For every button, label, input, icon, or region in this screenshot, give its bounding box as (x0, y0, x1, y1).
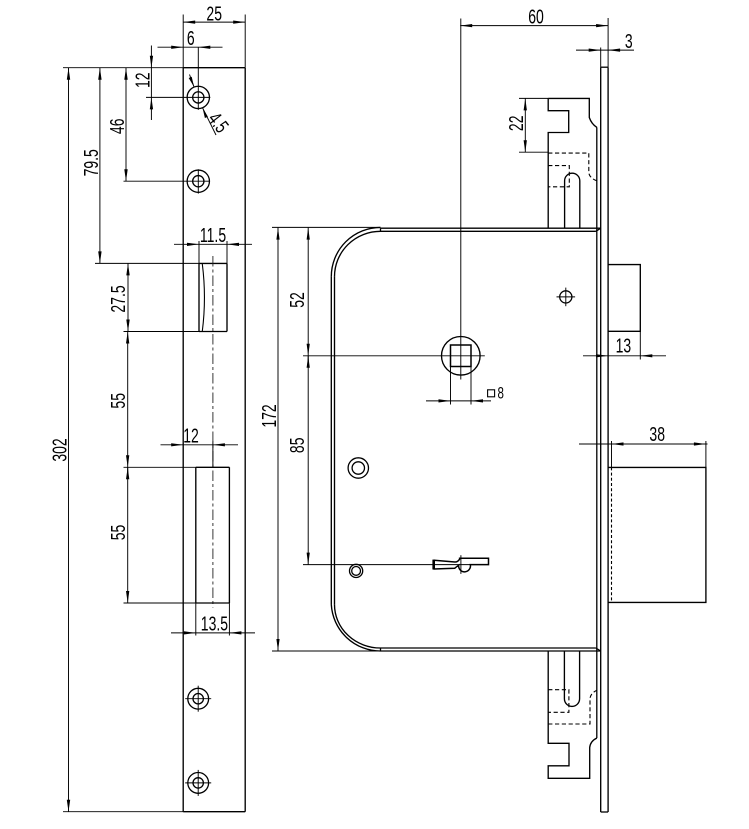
dim 302 (48, 68, 71, 812)
case screw hole (557, 288, 576, 307)
case top-left corner arcs (331, 227, 380, 276)
dim 172 (257, 228, 280, 651)
top hook piece (548, 98, 597, 228)
spindle follower hub (303, 19, 485, 405)
dim 11.5 (174, 223, 252, 263)
svg-text:13.5: 13.5 (201, 612, 228, 635)
latch cutout (95, 263, 227, 331)
svg-text:55: 55 (107, 525, 130, 541)
svg-text:79.5: 79.5 (79, 149, 102, 176)
case left edge (331, 277, 334, 605)
dim 12 deadbolt (161, 424, 239, 468)
svg-text:22: 22 (505, 116, 528, 132)
deadbolt throw box (608, 467, 706, 602)
svg-text:172: 172 (257, 404, 280, 427)
key bit symbol (434, 558, 489, 572)
svg-text:27.5: 27.5 (107, 285, 130, 312)
dim 46 (105, 68, 128, 182)
screw hole F1 top (146, 47, 210, 110)
bottom slot with pin (564, 651, 579, 706)
deadbolt cutout (124, 467, 230, 635)
dim 55 lower (107, 467, 130, 603)
svg-text:12: 12 (131, 72, 154, 88)
case right edge (596, 127, 598, 738)
dim 55 upper (107, 332, 130, 468)
faceplate front view outline (183, 68, 245, 812)
latch bolt head (608, 265, 640, 360)
dim 22 (505, 98, 549, 152)
dim 3 (576, 29, 634, 67)
bottom hook piece (548, 651, 597, 778)
dim 12 vertical (131, 46, 154, 121)
case top edge (272, 227, 601, 231)
svg-text:60: 60 (528, 5, 544, 28)
dim 13.5 (171, 612, 255, 635)
svg-text:55: 55 (107, 393, 130, 409)
faceplate top/bottom extension lines (63, 68, 183, 812)
svg-text:8: 8 (498, 384, 504, 403)
svg-text:25: 25 (206, 2, 222, 25)
dim 52 (285, 228, 309, 356)
dim square 8 (426, 384, 504, 403)
top hidden lines (548, 153, 597, 187)
svg-text:52: 52 (285, 292, 308, 308)
bottom hidden lines (548, 690, 597, 724)
svg-text:85: 85 (285, 438, 308, 454)
dim 38 (579, 422, 708, 467)
svg-text:6: 6 (187, 26, 195, 49)
dim 27.5 (107, 263, 130, 331)
svg-text:46: 46 (105, 119, 128, 135)
svg-text:3: 3 (625, 29, 633, 52)
dim 25 (183, 2, 245, 68)
svg-text:11.5: 11.5 (200, 223, 226, 246)
case bottom edge (272, 648, 601, 651)
dim 13 (583, 334, 666, 358)
cylinder hole upper (348, 458, 368, 478)
latch bolt curve (202, 264, 204, 331)
dim 79.5 (79, 68, 102, 264)
screw hole F2 (124, 169, 210, 193)
case bottom-left corner arcs (331, 605, 380, 651)
svg-text:302: 302 (48, 438, 71, 461)
screw hole F3 (185, 686, 211, 712)
centerline (212, 256, 214, 608)
top slot with pin (565, 173, 580, 228)
cylinder hole lower (350, 564, 363, 577)
svg-text:38: 38 (649, 422, 665, 445)
svg-text:12: 12 (183, 424, 199, 447)
dim 85 (285, 356, 309, 565)
screw hole F4 (185, 770, 211, 796)
faceplate edge view (601, 67, 608, 812)
key centerlines (303, 555, 471, 574)
leader 4.5 (189, 75, 234, 138)
dim 60 (460, 5, 608, 67)
dim 6 (158, 26, 223, 49)
svg-text:13: 13 (616, 334, 632, 357)
